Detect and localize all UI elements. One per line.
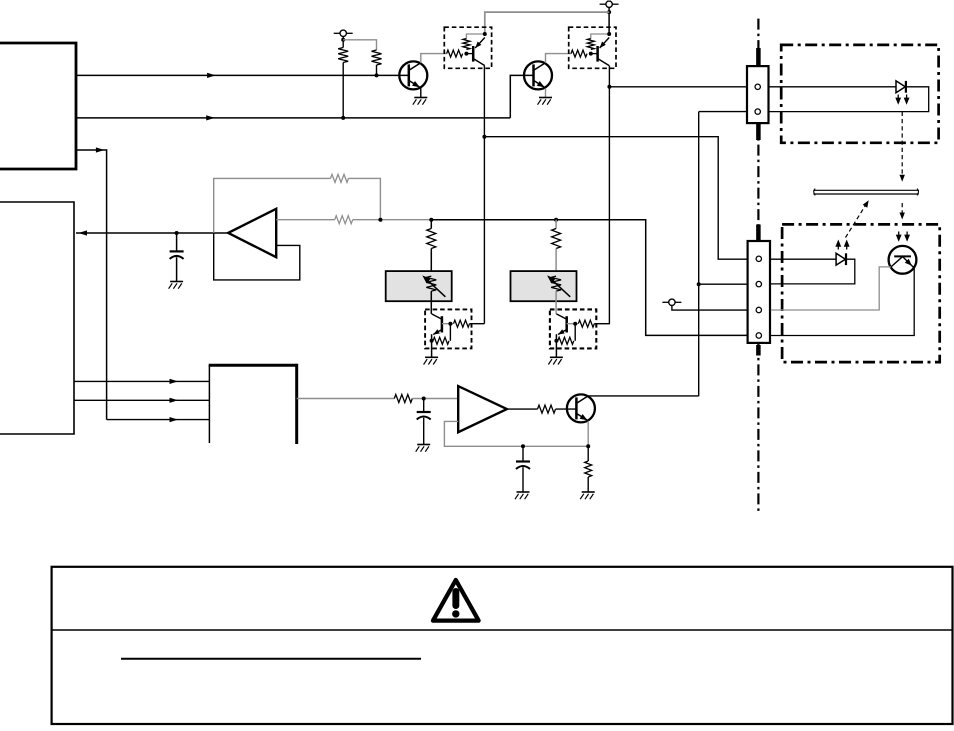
junction U4 emitter node xyxy=(607,32,611,36)
arrow into NCU block xyxy=(79,230,88,235)
wire audio line 3 xyxy=(107,419,210,421)
junction U3 base node xyxy=(464,52,468,56)
transistor DTR2 xyxy=(556,314,566,357)
junction DTR1 emitter-resistor xyxy=(430,339,434,343)
wire to CN2 pin1 (LED2 anode feed) xyxy=(484,137,747,260)
wire DTR2 base xyxy=(567,323,578,325)
wire U3 collector down (vertical 1) xyxy=(483,66,485,324)
resistor DTR2 base xyxy=(578,320,594,327)
block: codec IC (open bottom) xyxy=(209,364,297,444)
connector CN2 body xyxy=(748,241,770,343)
light beam LED1 to document xyxy=(900,112,905,182)
junction feedback/input node xyxy=(378,218,382,222)
wire R2 to bus1 xyxy=(376,65,378,75)
PT1 light arrows xyxy=(896,232,910,242)
wire DTR2 base-emitter drop xyxy=(574,324,576,341)
ground chain2 xyxy=(548,357,563,364)
block: main control PCB (top-left, cut off at page edge) xyxy=(0,43,76,169)
wire: U2 non-inverting input line xyxy=(276,219,335,221)
wire DTR1 base xyxy=(442,323,453,325)
junction DTR1 base xyxy=(448,322,452,326)
shaded box VR2 xyxy=(511,271,577,301)
wire R1 to bus2 xyxy=(342,63,344,118)
capacitor C1 xyxy=(170,233,184,282)
resistor U1 output xyxy=(538,405,556,413)
LED D2 xyxy=(836,253,846,265)
junction CN2 pin2 feed xyxy=(697,282,701,286)
wire U1 feedback rail xyxy=(444,421,588,446)
variable resistor VR1 xyxy=(422,275,445,296)
wire U4 collector down (vertical 2) xyxy=(608,66,610,324)
wire Q3 emitter down xyxy=(587,421,589,446)
document (paper) xyxy=(813,189,918,196)
junction bus3 / chain1 xyxy=(429,218,433,222)
terminal T1 (+V) xyxy=(334,30,353,36)
resistor chain1 top xyxy=(427,229,436,249)
ground Q1 xyxy=(413,98,428,105)
dashed box: digital transistor DTR2 xyxy=(550,309,596,348)
CN2 pin 3 xyxy=(756,307,761,312)
warning box outer xyxy=(52,567,953,724)
ground Q3 emitter xyxy=(580,492,595,499)
resistor chain2 top xyxy=(552,229,561,249)
chain line (unit boundary) xyxy=(757,19,759,512)
internal wire U3 top xyxy=(466,34,484,39)
LED D1 light arrows xyxy=(895,95,909,105)
arrow on stub xyxy=(96,147,105,152)
junction R2/bus1 xyxy=(375,73,379,77)
resistor DTR1 base-emitter xyxy=(433,337,449,344)
ground for C1 xyxy=(169,282,184,289)
wire: bus2 horizontal xyxy=(76,117,510,119)
capacitor C3 xyxy=(516,446,530,492)
CN1 pin 2 xyxy=(755,109,760,114)
arrow audio line 1 xyxy=(170,379,179,384)
wire vertical 3 xyxy=(698,112,700,397)
resistor R-fb of U2 xyxy=(331,174,349,182)
wire to C2 node xyxy=(412,398,458,400)
wire CN1 pin2 line xyxy=(699,111,747,113)
wire codec output xyxy=(297,398,395,400)
junction U4 base node xyxy=(589,52,593,56)
capacitor C2 xyxy=(417,399,431,445)
wire DTR1 base-emitter drop xyxy=(449,324,451,341)
wire CN2 pin1 to LED2 anode xyxy=(771,258,836,260)
light beam LED2 to document xyxy=(846,200,869,237)
wire U1 output xyxy=(507,408,538,410)
junction DTR2 emitter-resistor xyxy=(554,339,558,343)
wire T2 to opto1 (gray) xyxy=(485,12,609,34)
junction C3 xyxy=(521,444,525,448)
internal wire U4 top xyxy=(591,34,609,39)
wire: feedback resistor to input node xyxy=(349,178,381,219)
ground C3 xyxy=(515,492,530,499)
connector CN1 body xyxy=(747,66,769,123)
wire: vertical feed for audio line 3 xyxy=(106,149,108,419)
resistor U4 internal xyxy=(587,39,594,50)
wire: input node segment xyxy=(353,219,432,221)
op-amp U2 (comparator, points left) xyxy=(228,209,276,257)
wire Q2 collector xyxy=(546,54,572,63)
CN2 pin 1 xyxy=(756,256,761,261)
junction Q3 emitter xyxy=(586,444,590,448)
junction R1/bus2 xyxy=(341,116,345,120)
wire chain2 VR to transistor xyxy=(555,291,557,314)
arrow on bus2 xyxy=(206,115,215,120)
wire: comparator output to NCU block xyxy=(76,232,228,234)
transistor Q3 xyxy=(567,394,595,422)
wire resistor to Q3 base xyxy=(556,408,577,410)
wire: bus3 across to connector CN2 pin4 xyxy=(431,220,747,336)
junction CN1 pin1 feed xyxy=(607,85,611,89)
wire CN2 pin2 line xyxy=(699,283,747,285)
resistor U4 base xyxy=(571,50,587,57)
underlined heading rule xyxy=(121,658,421,660)
junction bus3 / chain2 xyxy=(554,218,558,222)
phototransistor PT1 xyxy=(889,246,917,274)
wire to CN1 pin1 (LED1 anode feed) xyxy=(609,86,747,88)
wire CN1 pin1 to LED1 anode xyxy=(769,86,897,88)
junction DTR2 base xyxy=(573,322,577,326)
arrow audio line 2 xyxy=(170,398,179,403)
transistor U4 (PNP) xyxy=(591,38,609,66)
wire LED1 cathode return xyxy=(769,87,929,112)
transistor Q2 xyxy=(524,61,552,89)
wire emitter resistor to ground xyxy=(587,446,589,492)
wire: bus2 riser to Q2 base xyxy=(510,75,533,118)
light beam document to photosensor xyxy=(900,203,905,220)
op-amp U1 (audio, points right) xyxy=(458,386,507,432)
wire chain2 top xyxy=(555,220,557,229)
dashed box: PNP digital transistor U3 xyxy=(444,27,491,68)
arrow on bus1 xyxy=(207,73,216,78)
dashed box: digital transistor DTR1 xyxy=(425,309,471,348)
junction LED2 feed xyxy=(482,135,486,139)
junction U3 emitter node xyxy=(483,32,487,36)
wire Q2 emitter to ground xyxy=(545,88,547,97)
junction on output at C1 xyxy=(175,231,179,235)
dash-dot box: LED array unit xyxy=(781,45,938,143)
wire: U2 feedback top loop xyxy=(214,178,331,233)
resistor R1 (pull-up) xyxy=(338,48,348,63)
wire chain2 to VR box xyxy=(555,249,557,277)
resistor U3 internal xyxy=(463,39,470,50)
wire chain1 VR to transistor xyxy=(430,291,432,314)
LED D2 light arrows xyxy=(835,240,849,250)
arrow audio line 3 xyxy=(170,417,179,422)
warning triangle xyxy=(433,580,479,621)
wire CN2 pin3 to PT1 collector xyxy=(771,267,891,310)
wire T1 down xyxy=(342,37,344,48)
terminal T2 (+V top) xyxy=(600,0,619,7)
CN2 pin 4 xyxy=(756,333,761,338)
junction T1 xyxy=(341,38,345,42)
wire T3 to CN2 pin3 xyxy=(672,306,747,311)
transistor U3 (PNP) xyxy=(466,38,484,66)
LED D1 xyxy=(896,81,906,93)
wire: U2 inverting input loop xyxy=(214,233,300,280)
wire audio line 1 xyxy=(74,380,209,382)
CN1 pin 1 xyxy=(755,84,760,89)
chain line bold segments xyxy=(756,48,761,356)
junction T2 xyxy=(607,10,611,14)
variable resistor VR2 xyxy=(547,275,570,296)
resistor U3 base xyxy=(447,50,463,57)
terminal T3 xyxy=(662,299,681,305)
resistor R2 (pull-up) xyxy=(372,50,382,65)
transistor Q1 xyxy=(399,61,427,89)
wire chain1 to VR box xyxy=(430,249,432,277)
wire: bus1 to Q1 base xyxy=(76,74,409,76)
shaded box VR1 xyxy=(386,271,452,301)
wire Q1 emitter to ground xyxy=(420,88,422,97)
resistor DTR2 base-emitter xyxy=(558,337,574,344)
wire T2 down xyxy=(608,7,610,34)
resistor DTR1 base xyxy=(454,320,470,327)
wire: stub from block to audio line 3 xyxy=(76,149,107,151)
block: NCU PCB (lower-left, cut off at page edge) xyxy=(0,202,74,434)
dash-dot box: photo sensor unit xyxy=(782,224,940,362)
resistor Q3 emitter xyxy=(585,461,592,477)
transistor DTR1 xyxy=(432,314,442,357)
junction C2 xyxy=(422,397,426,401)
wire Q1 collector xyxy=(421,54,447,63)
ground chain1 xyxy=(424,357,439,364)
wire Q3 collector xyxy=(588,395,698,397)
ground Q2 xyxy=(538,98,553,105)
wire DTR1 base resistor out xyxy=(470,323,485,325)
wire T1 to R2 (gray) xyxy=(343,40,376,50)
wire LED2 cathode return xyxy=(771,259,855,284)
dashed box: PNP digital transistor U4 xyxy=(569,27,616,68)
ground C2 xyxy=(416,445,431,452)
resistor R-in of U2 xyxy=(335,216,353,224)
wire audio line 2 xyxy=(74,399,209,401)
wire DTR2 base resistor out xyxy=(594,323,610,325)
wire chain1 top xyxy=(430,220,432,229)
warning box divider xyxy=(52,629,953,631)
resistor audio input xyxy=(394,395,412,403)
wire PT1 emitter to CN2 pin4 xyxy=(771,268,914,336)
CN2 pin 2 xyxy=(756,281,761,286)
